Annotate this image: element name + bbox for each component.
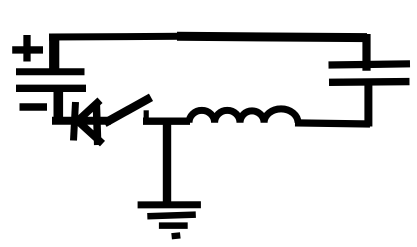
wire: capacitor bottom lead (364, 83, 372, 127)
diode D1 triangle (78, 100, 103, 145)
diode D1 cathode bar (74, 102, 76, 141)
battery B1 plus sign (12, 35, 43, 62)
switch S1 right contact tick (144, 110, 149, 122)
wire: ground branch vertical (163, 122, 171, 205)
ground symbol (138, 205, 201, 237)
wire: capacitor top lead (362, 34, 370, 71)
inductor L1 (189, 109, 298, 123)
wire: battery positive lead up to top rail (49, 34, 59, 72)
wire: top rail left segment (49, 33, 181, 41)
battery B1 bottom plate (16, 85, 86, 92)
capacitor C1 top plate (329, 64, 411, 65)
wire: bottom-left segment to diode (52, 117, 111, 125)
wire: mid segment from switch to inductor (143, 118, 190, 125)
wire: top rail right segment (177, 36, 367, 37)
capacitor C1 bottom plate (329, 78, 410, 86)
switch S1 lever (105, 97, 152, 123)
battery B1 top plate (16, 68, 85, 75)
wire: battery negative lead down (53, 89, 63, 125)
wire: bottom-right segment from inductor to capacitor (295, 123, 370, 124)
battery B1 minus sign (20, 103, 48, 110)
